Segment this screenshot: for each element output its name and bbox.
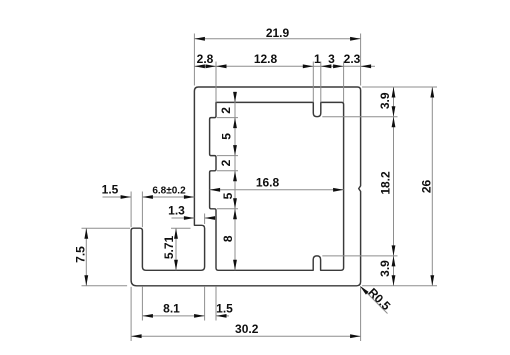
svg-text:7.5: 7.5 [73, 246, 87, 263]
extension line tooth step 2 [217, 155, 238, 157]
svg-text:1.3: 1.3 [168, 204, 185, 218]
svg-text:8.1: 8.1 [163, 301, 180, 315]
extension line tooth step 1 [217, 117, 238, 119]
dimension 26 (overall height, right) [431, 87, 433, 286]
extension line hook rim for 5.71 [171, 227, 191, 229]
svg-text:1: 1 [314, 52, 321, 66]
extension line hook outer left (bottom) [130, 287, 132, 341]
dimension 5.71 (channel depth) [175, 228, 177, 270]
profile inner cavity contour with screw slots and teeth [210, 102, 344, 270]
dimension 7.5 (hook height, far left) [85, 228, 87, 286]
extension line bottom left for 7.5 [82, 285, 128, 287]
dimension 1.3 (step) [172, 217, 195, 219]
svg-text:3.9: 3.9 [378, 260, 392, 277]
dimension 1.5 bottom (wall thickness) [216, 315, 229, 317]
svg-text:2: 2 [219, 107, 233, 114]
extension line at teeth wall (top) [215, 62, 217, 103]
svg-text:21.9: 21.9 [266, 26, 290, 40]
dimension R0.5 corner radius leader [361, 287, 387, 313]
dimension 1 (slot width) [313, 65, 321, 67]
dimension 3.9 bottom (right) [393, 256, 395, 286]
dimension 2.8 [194, 65, 216, 67]
svg-text:3.9: 3.9 [378, 92, 392, 109]
svg-text:2.8: 2.8 [197, 52, 214, 66]
svg-text:2.3: 2.3 [344, 52, 361, 66]
extension line bottom edge right [362, 285, 437, 287]
extension line at body outer right (top) [360, 34, 362, 86]
svg-text:3: 3 [328, 52, 335, 66]
svg-text:12.8: 12.8 [254, 52, 278, 66]
dimension 6.8 +/- 0.2 (channel opening) [142, 196, 194, 198]
dimension 21.9 (overall top width) [194, 38, 360, 40]
extension line tooth step 3 [217, 170, 238, 172]
dimension 3 [321, 65, 344, 67]
dimension 8.1 (bottom channel width) [142, 315, 204, 317]
extension line step wall (bottom) [204, 287, 206, 321]
dimension 18.2 (right) [393, 117, 395, 256]
svg-text:16.8: 16.8 [256, 176, 280, 190]
extension line hook outer left (upper) [130, 192, 132, 228]
extension line hook rim left for 7.5 [82, 227, 131, 229]
svg-text:1.5: 1.5 [102, 183, 119, 197]
dimension 3.9 top (right) [393, 87, 395, 117]
svg-text:30.2: 30.2 [235, 322, 259, 336]
svg-text:18.2: 18.2 [379, 171, 393, 195]
tooth dimension chain line 2/5/2/5/8 [234, 92, 236, 270]
extension line at cavity right wall (top) [343, 62, 345, 103]
extension line at step wall (1.3) [204, 214, 206, 225]
extension line teeth wall (bottom) [215, 287, 217, 321]
extension line notch top right [322, 255, 397, 257]
svg-text:5: 5 [220, 133, 234, 140]
extension line slot bottom right [322, 116, 397, 118]
dimension 30.2 (overall width, bottom) [131, 335, 361, 337]
svg-text:6.8±0.2: 6.8±0.2 [152, 186, 186, 197]
extension line at body outer left (top) [193, 34, 195, 86]
svg-text:2: 2 [219, 159, 233, 166]
extension line at slot left (top) [312, 62, 314, 103]
extension line tooth step 4 [217, 208, 238, 210]
extension line top edge right [362, 86, 437, 88]
dimension 2.3 [344, 65, 361, 67]
svg-text:1.5: 1.5 [216, 301, 233, 315]
svg-text:5.71: 5.71 [162, 235, 176, 259]
svg-text:8: 8 [221, 235, 235, 242]
extension line hook inner left (bottom) [141, 287, 143, 321]
svg-text:5: 5 [221, 192, 235, 199]
dimension 1.5 (hook wall thickness) [103, 196, 132, 198]
extension line at slot right (top) [320, 62, 322, 103]
extension line body right (bottom) [360, 287, 362, 341]
profile outer contour [131, 87, 361, 286]
dimension 12.8 [216, 65, 313, 67]
extension line hook inner left (upper) [141, 192, 143, 228]
dimension 16.8 (cavity width) [210, 189, 344, 191]
svg-text:26: 26 [420, 180, 434, 194]
